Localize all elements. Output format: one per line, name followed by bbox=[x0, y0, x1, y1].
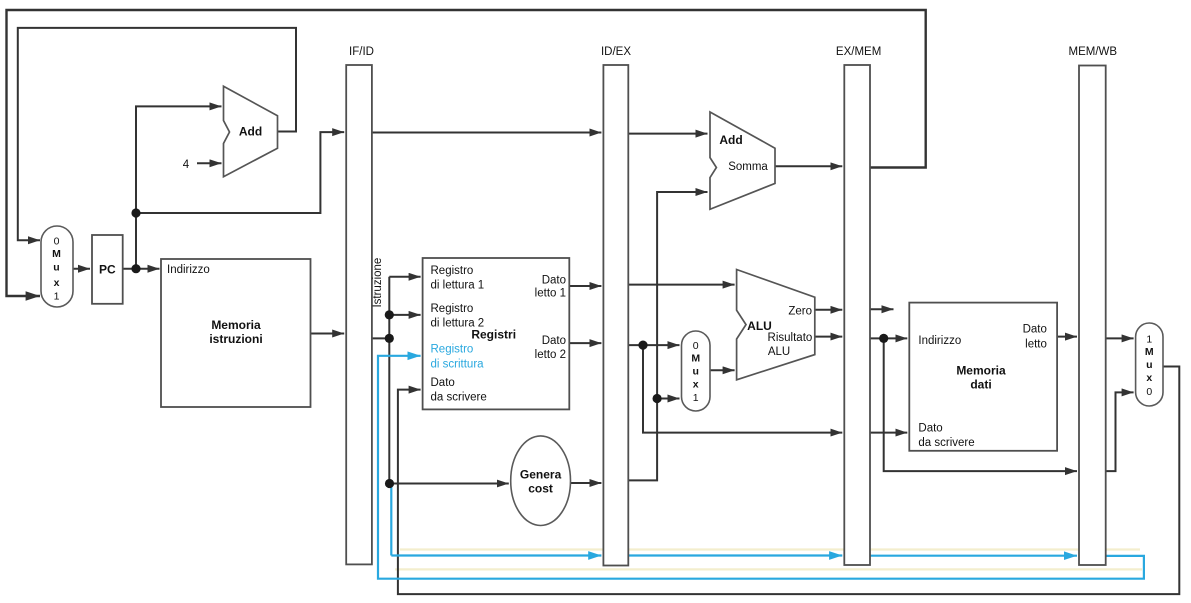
svg-text:ID/EX: ID/EX bbox=[601, 46, 631, 58]
svg-text:Registro: Registro bbox=[431, 303, 474, 315]
svg-text:di lettura 1: di lettura 1 bbox=[431, 280, 485, 292]
svg-text:Dato: Dato bbox=[542, 275, 566, 287]
svg-text:M: M bbox=[691, 353, 700, 365]
svg-text:0: 0 bbox=[54, 236, 60, 248]
svg-text:Registro: Registro bbox=[431, 265, 474, 277]
svg-text:1: 1 bbox=[693, 392, 699, 404]
svg-text:Dato: Dato bbox=[918, 423, 942, 435]
svg-text:1: 1 bbox=[54, 291, 60, 303]
svg-text:Zero: Zero bbox=[788, 306, 812, 318]
svg-text:Memoria: Memoria bbox=[211, 318, 261, 332]
svg-text:Add: Add bbox=[239, 125, 262, 139]
svg-text:x: x bbox=[693, 379, 699, 391]
svg-text:ALU: ALU bbox=[747, 319, 772, 333]
svg-text:di lettura 2: di lettura 2 bbox=[431, 318, 485, 330]
svg-text:x: x bbox=[54, 277, 60, 289]
svg-text:Memoria: Memoria bbox=[956, 364, 1006, 378]
svg-text:letto 1: letto 1 bbox=[535, 288, 566, 300]
svg-text:Add: Add bbox=[719, 133, 742, 147]
svg-text:dati: dati bbox=[970, 378, 991, 392]
svg-text:Istruzione: Istruzione bbox=[372, 258, 384, 308]
svg-text:IF/ID: IF/ID bbox=[349, 46, 374, 58]
svg-text:Indirizzo: Indirizzo bbox=[167, 264, 210, 276]
svg-text:0: 0 bbox=[693, 340, 699, 352]
svg-text:Registro: Registro bbox=[431, 344, 474, 356]
svg-text:M: M bbox=[52, 248, 61, 260]
svg-text:di scrittura: di scrittura bbox=[431, 359, 485, 371]
svg-text:Genera: Genera bbox=[520, 468, 562, 482]
svg-text:da scrivere: da scrivere bbox=[431, 392, 487, 404]
svg-text:EX/MEM: EX/MEM bbox=[836, 46, 881, 58]
svg-text:M: M bbox=[1145, 346, 1154, 358]
svg-text:istruzioni: istruzioni bbox=[209, 332, 262, 346]
svg-text:u: u bbox=[1146, 359, 1152, 371]
svg-text:letto: letto bbox=[1025, 339, 1047, 351]
svg-text:u: u bbox=[53, 262, 59, 274]
svg-text:1: 1 bbox=[1146, 334, 1152, 346]
svg-text:da scrivere: da scrivere bbox=[918, 437, 974, 449]
svg-text:Dato: Dato bbox=[431, 377, 455, 389]
svg-text:Risultato: Risultato bbox=[768, 332, 813, 344]
svg-text:Somma: Somma bbox=[728, 161, 768, 173]
svg-text:Registri: Registri bbox=[471, 328, 516, 342]
svg-text:cost: cost bbox=[528, 482, 553, 496]
svg-text:u: u bbox=[692, 366, 698, 378]
svg-text:Indirizzo: Indirizzo bbox=[918, 335, 961, 347]
svg-text:PC: PC bbox=[99, 263, 116, 277]
svg-text:ALU: ALU bbox=[768, 346, 790, 358]
svg-text:Dato: Dato bbox=[542, 335, 566, 347]
svg-text:x: x bbox=[1146, 372, 1152, 384]
svg-text:MEM/WB: MEM/WB bbox=[1069, 46, 1118, 58]
svg-text:0: 0 bbox=[1146, 386, 1152, 398]
svg-text:Dato: Dato bbox=[1023, 324, 1047, 336]
svg-text:4: 4 bbox=[183, 159, 190, 171]
svg-text:letto 2: letto 2 bbox=[535, 349, 566, 361]
